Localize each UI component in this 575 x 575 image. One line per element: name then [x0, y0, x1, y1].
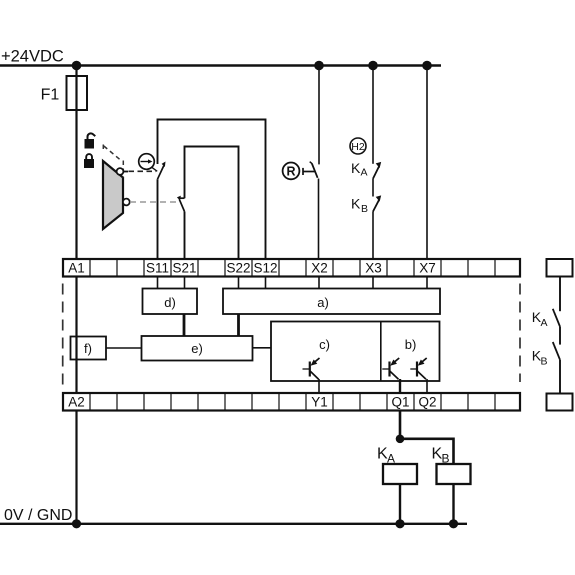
svg-text:a): a)	[317, 295, 329, 310]
wire X3 middle	[372, 179, 374, 197]
fuse F1	[67, 76, 88, 110]
node junction KB on GND	[449, 519, 458, 528]
block a	[223, 289, 440, 315]
svg-text:X7: X7	[419, 261, 436, 276]
svg-text:Q1: Q1	[391, 395, 409, 410]
wire channel1 bracket S11 to S12	[158, 120, 266, 260]
wire X3 upper	[372, 66, 374, 164]
lamp H2	[350, 138, 366, 154]
transistor output c	[303, 358, 320, 379]
dashed enclosure left edge	[62, 284, 64, 392]
node junction X3 on rail	[368, 61, 378, 71]
svg-text:S11: S11	[146, 261, 169, 276]
svg-text:f): f)	[84, 341, 92, 356]
svg-text:X2: X2	[311, 261, 328, 276]
svg-text:F1: F1	[41, 87, 60, 104]
wire X2 to block a	[318, 277, 320, 289]
svg-text:0V / GND: 0V / GND	[4, 507, 72, 524]
terminal block top right	[547, 259, 573, 277]
wire Q1 to junction	[399, 411, 402, 439]
wire channel2 bracket S21 to S22	[185, 147, 239, 260]
wire right column lower	[559, 360, 561, 394]
output block c/b	[271, 322, 440, 382]
wire S12 to block a	[265, 277, 267, 289]
pushbutton R (reset)	[283, 162, 318, 180]
terminal strip top	[63, 259, 520, 277]
svg-text:+24VDC: +24VDC	[1, 48, 64, 66]
svg-text:Y1: Y1	[311, 395, 328, 410]
svg-text:Q2: Q2	[418, 395, 436, 410]
svg-text:e): e)	[191, 341, 203, 356]
svg-text:A2: A2	[68, 395, 85, 410]
bus d to e	[183, 314, 186, 336]
wire +24VDC rail	[0, 64, 441, 67]
wire KB to GND	[452, 484, 454, 524]
svg-text:R: R	[286, 165, 295, 179]
wire A1 vertical	[75, 66, 77, 260]
closed padlock icon	[84, 154, 94, 168]
wire Y1	[318, 379, 320, 393]
wire X2 lower	[318, 179, 320, 260]
wire e to output block	[253, 347, 272, 349]
node Q1 branch	[396, 435, 405, 444]
wire KA to GND	[399, 484, 401, 524]
block f	[71, 337, 107, 360]
node junction KA on GND	[395, 519, 404, 528]
svg-text:S12: S12	[253, 261, 277, 276]
open padlock icon	[85, 133, 96, 148]
relay coil KB	[432, 446, 471, 485]
svg-text:d): d)	[164, 295, 176, 310]
contact KA (external)	[532, 309, 560, 329]
contact KB (external)	[532, 342, 560, 368]
actuation dashed link 2	[130, 201, 177, 203]
wire X3 lower	[372, 212, 374, 260]
contact KB feedback	[351, 195, 381, 215]
svg-text:S22: S22	[226, 261, 250, 276]
roller contact 2	[123, 199, 130, 206]
svg-text:B: B	[361, 203, 368, 215]
wire branch to KB	[400, 439, 454, 464]
svg-text:A1: A1	[68, 261, 85, 276]
wire right column upper	[559, 277, 561, 312]
door open-position ghost (dashed)	[103, 145, 123, 178]
terminal strip bottom	[63, 393, 520, 411]
wire S22 to block a	[238, 277, 240, 289]
svg-text:A: A	[361, 167, 368, 179]
actuation dashed link 1	[129, 170, 157, 172]
svg-text:A: A	[541, 317, 548, 329]
svg-text:B: B	[541, 356, 548, 368]
wire X2 upper	[318, 66, 320, 165]
svg-text:S21: S21	[172, 261, 196, 276]
node junction X2 on rail	[314, 61, 324, 71]
bus a to e	[237, 314, 240, 336]
wire X3 to block a	[372, 277, 374, 289]
svg-text:K: K	[351, 160, 361, 176]
block d	[143, 289, 198, 315]
wire right column middle	[559, 327, 561, 345]
node junction A2 on GND	[72, 519, 81, 528]
svg-text:b): b)	[405, 337, 417, 352]
terminal block bottom right	[547, 394, 573, 411]
wire Q2	[426, 379, 428, 393]
wire S11 to block d	[157, 277, 159, 289]
node junction A1 on rail	[72, 61, 82, 71]
svg-text:H2: H2	[351, 141, 365, 153]
wire 0V/GND rail	[0, 523, 467, 525]
wire f to e	[106, 347, 142, 349]
wire Q1 upper	[399, 379, 401, 393]
wire S21 to block d	[184, 277, 186, 289]
svg-text:c): c)	[319, 337, 330, 352]
door cam (guard)	[103, 161, 123, 229]
dashed enclosure right edge	[519, 284, 521, 383]
wire A2 vertical	[75, 411, 77, 524]
actuator direction symbol	[139, 154, 158, 172]
wire X7	[426, 66, 428, 260]
contact S11 (gate switch ch.1)	[158, 162, 166, 260]
svg-text:X3: X3	[365, 261, 382, 276]
svg-text:K: K	[351, 196, 361, 212]
relay coil KA	[377, 446, 417, 485]
contact S21 (gate switch ch.2)	[177, 196, 185, 259]
transistor output b1	[382, 358, 399, 379]
wire A1 to A2 through block f	[75, 277, 77, 394]
wire X7 to block a	[426, 277, 428, 289]
transistor output b2	[410, 358, 426, 379]
block e	[142, 336, 253, 361]
roller contact 1	[117, 168, 124, 175]
contact KA feedback	[351, 160, 381, 179]
node junction X7 on rail	[422, 61, 432, 71]
